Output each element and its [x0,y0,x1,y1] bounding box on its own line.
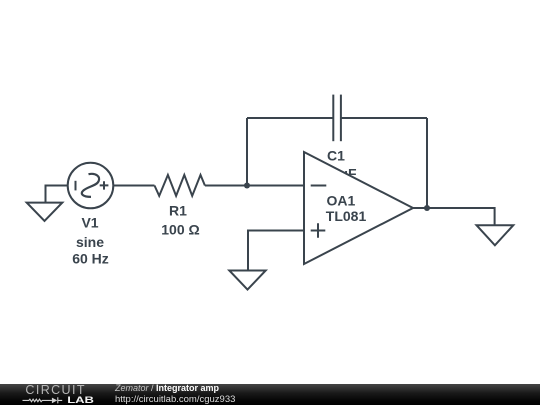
resistor R1 zigzag [155,175,205,196]
logo resistor-diode squiggle [23,397,63,403]
ground GND1 (left of V1) [27,203,63,221]
wire: feedback top left (to C1 left plate) [247,117,333,119]
svg-text:100 Ω: 100 Ω [161,222,199,238]
footer title line [115,384,219,394]
op-amp non-inverting input plus sign [311,223,326,238]
capacitor C1 right plate [340,95,342,142]
svg-text:C1: C1 [327,147,345,163]
wire: output node to right [427,208,495,225]
node A junction dot [244,182,250,188]
svg-text:TL081: TL081 [326,208,367,224]
V1 plus sign [100,181,109,189]
svg-text:R1: R1 [169,203,187,219]
svg-text:OA1: OA1 [327,193,356,209]
V1 sine squiggle [82,174,99,197]
V1 minus terminal bar [75,181,77,191]
capacitor C1 left plate [332,95,334,142]
output node junction dot [424,205,430,211]
ground GND2 (below + input) [229,271,265,290]
svg-text:60 Hz: 60 Hz [72,251,109,267]
svg-text:V1: V1 [81,215,98,231]
wire: V1 left terminal to ground [46,186,69,203]
wire: R1 to node A [205,185,247,187]
op-amp OA1 body triangle [304,152,413,264]
CircuitLab logo [0,384,110,405]
svg-text:LAB: LAB [67,396,94,405]
wire: op-amp + input to ground [248,231,304,271]
wire: feedback left vertical (node A up) [246,118,248,186]
ground GND3 (right, at output) [477,225,514,245]
wire: node A to op-amp inverting input [247,185,304,187]
wire: op-amp output stub [413,207,427,209]
footer url line [115,395,235,405]
logo diode triangle [52,398,57,404]
wire: C1 right plate to feedback right vertical [341,117,427,119]
footer bar [0,384,540,405]
svg-text:sine: sine [76,234,104,250]
wire: V1 to R1 [113,185,154,187]
op-amp inverting input minus sign [311,185,327,187]
voltage source V1 circle [68,163,114,209]
wire: feedback right vertical (down to output node) [426,118,428,208]
